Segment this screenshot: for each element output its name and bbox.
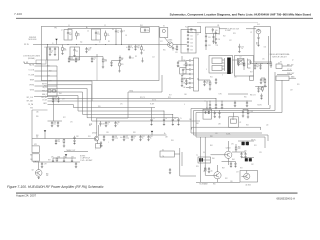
resistor R3315 — [181, 76, 183, 79]
wire left verticals — [199, 137, 201, 182]
svg-text:RF IN: RF IN — [24, 44, 29, 46]
parts right of K2 — [242, 109, 244, 111]
svg-text:C99: C99 — [44, 164, 47, 166]
svg-text:C9: C9 — [44, 47, 46, 49]
capacitor C3366 — [186, 87, 189, 89]
wire branch down — [47, 45, 49, 98]
capacitor C3360 — [204, 80, 206, 82]
capacitor C3340 — [68, 57, 70, 59]
capacitor C3318 — [135, 45, 137, 47]
svg-text:C12: C12 — [76, 51, 79, 53]
svg-text:FL3: FL3 — [185, 27, 188, 29]
svg-text:9V3: 9V3 — [30, 108, 33, 110]
wire top rail — [197, 22, 258, 24]
svg-text:47p: 47p — [130, 47, 133, 49]
svg-text:C82: C82 — [76, 136, 79, 138]
resistor R3303 — [62, 45, 64, 48]
svg-text:9R3: 9R3 — [168, 97, 171, 99]
wire RF input — [33, 43, 41, 45]
svg-text:R70: R70 — [297, 84, 300, 86]
svg-text:R64: R64 — [59, 93, 62, 95]
junction dots buses — [215, 97, 218, 100]
svg-text:R72: R72 — [240, 168, 243, 170]
svg-text:C22: C22 — [190, 39, 193, 41]
svg-text:6816532H01-A: 6816532H01-A — [276, 197, 295, 201]
capacitor C3352 — [260, 63, 262, 65]
svg-text:R9: R9 — [135, 56, 137, 58]
svg-text:33p: 33p — [97, 34, 100, 36]
svg-text:10n: 10n — [57, 141, 60, 143]
svg-text:1k: 1k — [142, 138, 144, 140]
wire inner loop — [192, 127, 261, 130]
capacitor C3336 — [238, 44, 240, 46]
svg-text:J2: J2 — [292, 60, 294, 62]
svg-text:K3: K3 — [280, 61, 282, 63]
svg-text:V_CON: V_CON — [29, 70, 35, 72]
svg-text:10k: 10k — [36, 137, 39, 139]
svg-text:C33: C33 — [216, 45, 219, 47]
svg-text:R15: R15 — [163, 50, 166, 52]
svg-text:R21: R21 — [210, 77, 213, 79]
resistor R3311 — [119, 61, 121, 64]
capacitor Ch178.5 — [178, 118, 180, 120]
svg-text:220: 220 — [64, 50, 67, 52]
net BIAS — [289, 77, 296, 79]
resistor R3352 — [270, 61, 272, 63]
svg-text:C9: C9 — [153, 118, 155, 120]
harmonic filter box — [181, 30, 196, 54]
resistor R3331 — [63, 139, 65, 140]
svg-text:R14: R14 — [140, 25, 143, 27]
svg-text:TH: TH — [162, 156, 164, 158]
svg-text:C21: C21 — [190, 35, 193, 37]
svg-text:C31: C31 — [208, 45, 211, 47]
svg-text:R23: R23 — [233, 33, 236, 35]
wire feeds — [182, 78, 186, 80]
svg-text:MODULE: MODULE — [28, 39, 37, 41]
wire bias feed — [69, 56, 103, 58]
capacitor C3366 — [250, 60, 252, 62]
svg-text:Schematics, Component Location: Schematics, Component Location Diagrams,… — [170, 13, 312, 17]
wire ctrl vertical — [56, 66, 58, 97]
svg-text:R6: R6 — [112, 29, 114, 31]
svg-text:9.3V: 9.3V — [219, 94, 222, 96]
capacitor C3362 — [186, 69, 189, 71]
svg-text:100p: 100p — [125, 138, 129, 140]
resistor R3342 — [204, 168, 206, 171]
svg-text:R57: R57 — [250, 72, 253, 74]
box F3301 — [203, 109, 212, 119]
svg-text:R61: R61 — [47, 66, 50, 68]
svg-text:Q3301: Q3301 — [168, 40, 173, 42]
svg-text:R27: R27 — [63, 117, 66, 119]
diode box D3351 — [276, 64, 282, 69]
svg-text:SW_B+: SW_B+ — [251, 139, 256, 141]
svg-text:100p: 100p — [70, 59, 74, 61]
svg-text:August 24, 2007: August 24, 2007 — [16, 194, 37, 198]
svg-text:Q6 3904: Q6 3904 — [245, 184, 251, 186]
regulator lower cluster — [255, 85, 267, 87]
svg-text:1n: 1n — [117, 124, 119, 126]
svg-text:R43: R43 — [171, 140, 174, 142]
capacitor C3346 — [185, 79, 187, 81]
wire staircase A — [48, 85, 201, 121]
wire staircase B — [48, 89, 179, 118]
svg-text:R69: R69 — [210, 136, 213, 138]
svg-text:NOTES:: NOTES: — [80, 156, 86, 158]
svg-text:C45: C45 — [177, 66, 180, 68]
svg-text:C66: C66 — [183, 87, 186, 89]
capacitor C3375 — [246, 101, 248, 103]
capacitor C3363 — [186, 73, 189, 75]
svg-text:C66: C66 — [189, 119, 192, 121]
svg-text:R65: R65 — [36, 116, 39, 118]
svg-text:R7: R7 — [90, 48, 92, 50]
svg-text:10p: 10p — [80, 42, 82, 44]
box matching C3345 — [180, 68, 186, 74]
svg-text:C2: C2 — [104, 25, 106, 27]
net 5T_5V — [282, 70, 292, 72]
svg-text:PWR_DET: PWR_DET — [287, 73, 294, 75]
svg-text:C63: C63 — [183, 74, 186, 76]
matching column 2 — [213, 33, 215, 44]
svg-text:R_SET: R_SET — [150, 104, 155, 106]
svg-text:TP1: TP1 — [54, 28, 57, 30]
svg-text:10n: 10n — [120, 137, 122, 139]
resistor column x244 — [243, 60, 245, 70]
svg-text:C17: C17 — [160, 41, 163, 43]
svg-text:R11: R11 — [121, 64, 124, 66]
wire loop P2 — [194, 72, 276, 141]
svg-text:10n: 10n — [206, 83, 209, 85]
wire top feed A+ — [68, 28, 122, 30]
junction node — [46, 43, 49, 46]
capacitor C3392 — [208, 167, 210, 169]
wide box mid — [160, 151, 174, 157]
capacitor C3389 — [245, 152, 247, 154]
svg-text:R44: R44 — [232, 159, 235, 161]
svg-text:R39: R39 — [133, 132, 136, 134]
svg-text:1n: 1n — [107, 124, 109, 126]
wire branch bottom-left — [31, 110, 33, 146]
svg-text:C76: C76 — [70, 122, 73, 124]
capacitor C3373 — [234, 101, 236, 103]
coupler box — [276, 76, 289, 81]
antenna switch module box — [254, 26, 270, 62]
svg-text:5T_5V: 5T_5V — [287, 69, 291, 71]
capacitor C3301 — [64, 30, 72, 41]
tantalum pair 2 — [245, 158, 248, 161]
svg-text:1n: 1n — [241, 48, 243, 50]
series resistors on VRVS line — [48, 90, 51, 93]
isolator FL3301 — [256, 29, 261, 34]
capacitor C3351 — [254, 63, 256, 65]
capacitor C3319 — [176, 45, 178, 47]
wire — [232, 59, 244, 61]
capacitor C3362 — [215, 78, 217, 80]
regulator U3302 — [235, 56, 254, 77]
transistor Q3304 — [225, 151, 232, 158]
shield box inner divider — [96, 56, 98, 81]
node caps at x52-60 — [48, 120, 63, 122]
svg-text:C65: C65 — [183, 83, 186, 85]
test point TP3301 — [55, 39, 57, 41]
svg-text:RT1: RT1 — [34, 144, 37, 146]
header rule — [16, 17, 313, 19]
wire stub — [232, 117, 234, 120]
svg-text:Q5: Q5 — [211, 170, 213, 172]
svg-text:R17: R17 — [169, 95, 172, 97]
capacitor C3324 — [187, 44, 189, 45]
svg-text:L2: L2 — [61, 30, 63, 32]
ground mid shield — [142, 58, 144, 61]
capacitor C3303 — [92, 29, 101, 40]
svg-text:C19: C19 — [175, 52, 178, 54]
cluster right of regulator — [260, 78, 262, 80]
svg-text:1k: 1k — [150, 138, 152, 140]
divider row — [52, 158, 54, 160]
svg-text:R25: R25 — [244, 97, 247, 99]
svg-text:C59: C59 — [290, 90, 293, 92]
wire main RF bus — [41, 44, 167, 46]
capacitor C3364 — [186, 78, 189, 80]
svg-text:R5: R5 — [108, 41, 110, 43]
svg-text:TX_EN: TX_EN — [257, 105, 261, 107]
svg-text:C8: C8 — [125, 35, 127, 37]
box directional coupler — [188, 27, 201, 33]
transistor Q3306 — [244, 173, 250, 179]
wire emitter bus y135 — [99, 134, 161, 136]
capacitor C3374 — [214, 111, 216, 113]
junctions on RF bus — [67, 43, 70, 46]
svg-text:4k7: 4k7 — [89, 125, 91, 127]
capacitor C3313 — [86, 47, 88, 49]
svg-text:R26: R26 — [98, 106, 101, 108]
wire collector to relay — [165, 38, 169, 43]
svg-text:K1: K1 — [163, 26, 165, 28]
wire filter feed — [173, 44, 187, 46]
svg-text:51: 51 — [78, 35, 80, 37]
output ladder tall box — [194, 58, 199, 91]
svg-text:SWITCH CIRCUIT: SWITCH CIRCUIT — [272, 56, 287, 58]
box R network — [32, 154, 39, 161]
capacitor C3317 — [172, 46, 174, 49]
svg-text:TEMP: TEMP — [30, 80, 34, 82]
svg-text:3p9: 3p9 — [88, 50, 91, 52]
capacitor C3341 — [75, 57, 77, 59]
svg-text:C56: C56 — [264, 47, 267, 49]
capacitor C3382 — [74, 136, 76, 138]
svg-text:K2: K2 — [240, 122, 242, 124]
svg-text:C98: C98 — [218, 124, 221, 126]
svg-text:C9: C9 — [174, 118, 176, 120]
svg-text:(SIGNAL): (SIGNAL) — [28, 57, 36, 60]
capacitor Ch164 — [163, 111, 165, 119]
capacitor C3385 — [41, 162, 43, 164]
capacitor C3376 — [219, 110, 221, 112]
svg-text:C75: C75 — [120, 104, 123, 106]
net ANT_SW — [282, 65, 292, 67]
svg-text:R41: R41 — [210, 145, 213, 147]
capacitor C3371 — [215, 99, 217, 104]
capacitor C3364 — [238, 60, 240, 62]
svg-text:100p: 100p — [114, 138, 118, 140]
inductor L3301 — [105, 31, 107, 34]
output stage box — [240, 171, 258, 183]
svg-text:C14: C14 — [152, 57, 155, 59]
svg-text:C79: C79 — [62, 99, 65, 101]
capacitor C3325 — [187, 48, 189, 49]
wire loop P1 — [196, 80, 282, 148]
svg-text:C34: C34 — [218, 34, 221, 36]
capacitor Ch172.8 — [172, 114, 174, 119]
svg-text:C83: C83 — [102, 124, 105, 126]
capacitor C3322 — [187, 37, 189, 38]
capacitor C3347 — [52, 97, 54, 99]
capacitor C3395 — [169, 168, 171, 170]
resistor R3301 — [76, 31, 78, 33]
wire module main vertical — [268, 36, 270, 105]
svg-text:R51: R51 — [254, 145, 257, 147]
hanging caps under y135 — [103, 135, 105, 137]
svg-text:7-100: 7-100 — [14, 12, 22, 16]
svg-text:C97: C97 — [203, 171, 206, 173]
wire staircase E — [48, 105, 156, 108]
svg-text:C61: C61 — [183, 65, 186, 67]
svg-text:8p2: 8p2 — [69, 34, 72, 36]
footer rule — [16, 192, 298, 194]
svg-text:C15: C15 — [131, 57, 134, 59]
svg-text:L40: L40 — [266, 125, 268, 127]
svg-text:FL2: FL2 — [203, 152, 206, 154]
svg-text:1u: 1u — [93, 59, 95, 61]
svg-text:L31: L31 — [217, 25, 220, 27]
capacitor Ch151.5 — [151, 108, 153, 120]
dark substrate pad — [227, 58, 231, 75]
svg-text:J1: J1 — [52, 43, 54, 45]
wire staircase D — [48, 96, 165, 112]
svg-text:R66: R66 — [30, 155, 33, 157]
svg-text:C31: C31 — [208, 37, 211, 39]
svg-text:10k: 10k — [46, 175, 49, 177]
tantalum C3390 C3391 — [242, 142, 245, 145]
capacitor C3361 — [186, 64, 189, 66]
svg-text:VRVS: VRVS — [30, 90, 34, 92]
capacitor C3311 — [54, 47, 56, 49]
driver cap C3316 — [141, 28, 150, 33]
svg-text:C23: C23 — [190, 42, 193, 44]
box bias network — [70, 47, 80, 60]
svg-text:C30: C30 — [215, 30, 218, 32]
svg-text:C25: C25 — [190, 49, 193, 51]
wire bottom-left bus — [33, 161, 80, 163]
box K3302 — [229, 117, 239, 128]
resistor R3312 — [185, 61, 187, 63]
wire base bus y138.6 — [32, 138, 94, 140]
wire collector/emitter — [96, 121, 98, 136]
svg-text:1k: 1k — [133, 138, 135, 140]
svg-text:R68: R68 — [196, 123, 199, 125]
svg-text:C90: C90 — [244, 150, 247, 152]
svg-text:C68: C68 — [184, 94, 187, 96]
diode pair dark — [199, 158, 201, 161]
svg-text:R22: R22 — [223, 36, 226, 38]
capacitor C3372 — [221, 101, 223, 103]
svg-text:C91: C91 — [231, 144, 234, 146]
svg-text:L3: L3 — [68, 25, 70, 27]
resistor R3310 — [102, 57, 104, 60]
svg-text:R62: R62 — [49, 71, 52, 73]
test point TP2 — [44, 130, 46, 132]
net TX RF OUT — [219, 28, 227, 30]
net PWR_DET — [277, 74, 292, 76]
svg-text:C64: C64 — [183, 78, 186, 80]
svg-text:R67: R67 — [48, 160, 51, 162]
wire loop P3 — [191, 105, 270, 133]
net row y96.5 — [34, 96, 57, 98]
comparator box U3303 — [96, 144, 101, 148]
capacitor C3365 — [186, 82, 189, 84]
svg-text:C62: C62 — [183, 69, 186, 71]
svg-text:R50: R50 — [213, 184, 216, 186]
wire branch x92 — [91, 81, 93, 101]
svg-text:C96: C96 — [230, 181, 233, 183]
svg-text:TX_INH: TX_INH — [28, 75, 35, 77]
resistor R3320 — [209, 80, 211, 82]
capacitor C3323 — [187, 41, 189, 42]
capacitor C3349 — [111, 61, 113, 63]
capacitor C3360 — [186, 60, 189, 62]
net B+ arrow — [161, 134, 167, 136]
svg-text:9R3_SW: 9R3_SW — [41, 97, 47, 99]
svg-text:L30: L30 — [194, 30, 197, 32]
caps near base — [100, 141, 102, 143]
svg-text:C65: C65 — [234, 77, 237, 79]
svg-text:F1: F1 — [206, 108, 208, 110]
svg-text:C77: C77 — [47, 76, 50, 78]
PA module U3301 — [209, 56, 233, 74]
shield box PA driver stage — [41, 26, 159, 80]
svg-text:50 OHM: 50 OHM — [225, 30, 231, 32]
net PA_V — [128, 91, 162, 93]
svg-text:R63: R63 — [44, 86, 47, 88]
capacitor C3306 — [121, 29, 123, 32]
svg-text:12n: 12n — [107, 35, 110, 37]
net PA_EN stub — [24, 63, 41, 65]
svg-text:C4: C4 — [87, 31, 89, 33]
thermistor box RT3301 — [32, 146, 39, 153]
capacitor C3381 — [55, 139, 57, 141]
capacitor C3343 — [177, 61, 179, 63]
svg-text:9p1: 9p1 — [256, 66, 259, 68]
svg-text:C80: C80 — [36, 112, 39, 114]
wire bottom rail — [196, 181, 240, 183]
bias caps x132-149 — [131, 135, 133, 137]
wire staircase C — [48, 92, 173, 114]
transistor Q3305 — [214, 172, 221, 179]
svg-text:C9: C9 — [165, 118, 167, 120]
test point TP5 — [65, 154, 67, 156]
svg-text:10n: 10n — [53, 124, 56, 126]
svg-text:Q2: Q2 — [197, 34, 199, 36]
capacitor C3393 — [230, 162, 232, 164]
svg-text:Q3302: Q3302 — [92, 133, 97, 135]
inductor L3304 — [141, 45, 143, 47]
capacitor C3386 — [75, 162, 77, 164]
capacitor C3348 — [58, 97, 60, 99]
capacitor C3321 — [187, 34, 189, 35]
capacitor C3370 — [209, 101, 211, 103]
